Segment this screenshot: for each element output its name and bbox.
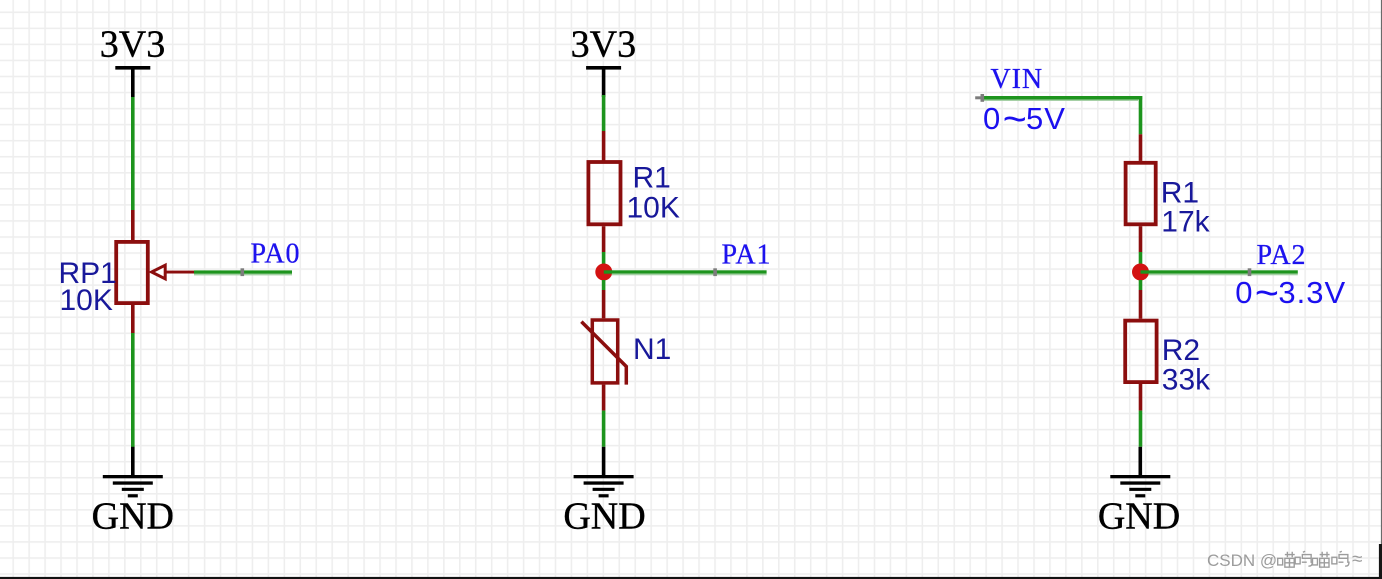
svg-text:0: 0 xyxy=(1235,275,1252,310)
svg-text:3V3: 3V3 xyxy=(100,24,165,66)
svg-text:33k: 33k xyxy=(1162,364,1211,397)
svg-text:10K: 10K xyxy=(627,192,680,225)
svg-text:~: ~ xyxy=(1003,96,1027,142)
svg-text:5V: 5V xyxy=(1026,101,1066,136)
svg-text:10K: 10K xyxy=(60,284,113,317)
svg-text:PA2: PA2 xyxy=(1257,240,1307,271)
svg-text:3.3V: 3.3V xyxy=(1278,275,1346,310)
svg-text:R1: R1 xyxy=(633,162,671,195)
svg-text:R2: R2 xyxy=(1162,334,1200,367)
svg-text:CSDN @: CSDN @ xyxy=(1207,551,1277,570)
svg-text:PA0: PA0 xyxy=(251,239,301,270)
svg-text:3V3: 3V3 xyxy=(571,24,636,66)
svg-text:GND: GND xyxy=(92,496,174,538)
svg-text:GND: GND xyxy=(563,496,645,538)
svg-text:0: 0 xyxy=(983,101,1000,136)
svg-text:GND: GND xyxy=(1098,496,1180,538)
svg-text:N1: N1 xyxy=(633,333,671,366)
svg-text:~: ~ xyxy=(1255,270,1279,316)
svg-text:VIN: VIN xyxy=(991,64,1043,95)
svg-text:≈: ≈ xyxy=(1352,549,1362,570)
svg-text:17k: 17k xyxy=(1161,206,1210,239)
svg-text:PA1: PA1 xyxy=(722,240,772,271)
